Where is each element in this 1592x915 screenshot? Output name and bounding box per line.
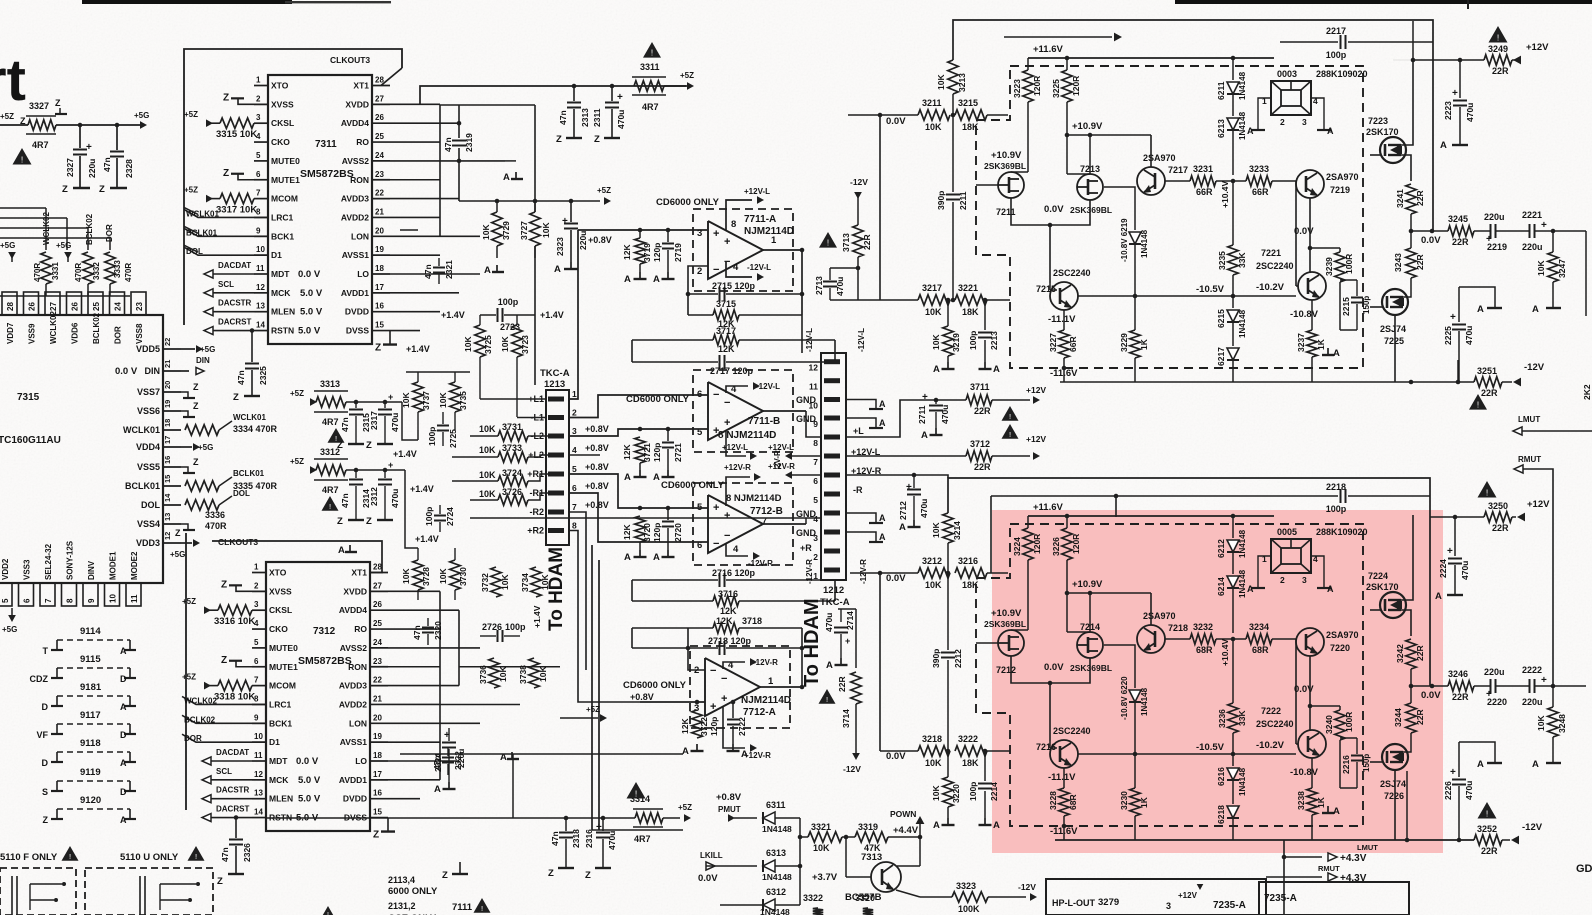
- resistor 3333 470R: [105, 252, 115, 284]
- svg-text:SM5872BS: SM5872BS: [300, 168, 354, 180]
- svg-text:6000 ONLY: 6000 ONLY: [388, 886, 438, 897]
- svg-text:AVDD1: AVDD1: [341, 288, 369, 298]
- svg-text:+: +: [724, 236, 730, 248]
- wire: [880, 299, 918, 301]
- svg-text:470u: 470u: [1465, 103, 1475, 122]
- svg-text:A: A: [624, 274, 631, 285]
- svg-text:MCK: MCK: [269, 775, 289, 785]
- diode 6311 1N4148: [763, 812, 775, 824]
- svg-text:2: 2: [572, 408, 577, 418]
- svg-text:VDD5: VDD5: [136, 344, 160, 354]
- wire collector q4 down: [1325, 248, 1327, 298]
- pin 28 XT1: [370, 572, 388, 574]
- svg-text:10K: 10K: [481, 224, 491, 240]
- svg-text:2326: 2326: [242, 843, 252, 862]
- svg-text:2319: 2319: [464, 133, 474, 152]
- svg-text:!: !: [1009, 430, 1011, 439]
- svg-text:22R: 22R: [1481, 846, 1498, 856]
- svg-text:3228: 3228: [1048, 791, 1058, 810]
- pin 13 MLEN: [252, 798, 266, 800]
- svg-text:A: A: [1327, 584, 1334, 594]
- svg-text:3242: 3242: [1395, 644, 1405, 663]
- svg-text:A: A: [879, 418, 886, 428]
- wire output 7712-A: [760, 686, 802, 688]
- svg-text:100p: 100p: [968, 331, 978, 350]
- wire vertical 880: [879, 115, 881, 300]
- pin 22 AVDD3: [370, 685, 388, 687]
- resistor 3240 100R: [1339, 706, 1341, 710]
- pin 5 MUTE0: [252, 647, 266, 649]
- svg-text:BCLK01: BCLK01: [125, 481, 160, 491]
- capacitor 2215 150p: [1340, 279, 1357, 281]
- svg-text:21: 21: [163, 360, 172, 368]
- wire row +L2: [569, 454, 600, 456]
- net -12V arrow 3714: [852, 753, 860, 760]
- svg-text:2: 2: [1280, 575, 1285, 585]
- pin 23 RON: [372, 179, 390, 181]
- capacitor 2322 47n: [447, 748, 449, 756]
- svg-text:1N4148: 1N4148: [1140, 687, 1149, 716]
- svg-text:A: A: [682, 746, 689, 757]
- svg-text:2219: 2219: [1487, 242, 1507, 252]
- pin 4 CKO: [252, 628, 266, 630]
- svg-text:−: −: [713, 389, 719, 401]
- ground A: [515, 172, 517, 179]
- warning triangle 3712: [1002, 424, 1019, 439]
- svg-text:RO: RO: [356, 137, 369, 147]
- svg-text:3730: 3730: [458, 567, 468, 586]
- ground Z pin20: [181, 392, 188, 398]
- wire +12V rail bottom: [1430, 516, 1484, 518]
- transistor 7223 2SK170: [1380, 137, 1406, 163]
- pin 25 RO: [372, 141, 390, 143]
- resistor 3738 10K: [529, 658, 539, 688]
- svg-text:2718 120p: 2718 120p: [708, 636, 752, 646]
- net DOL: [184, 247, 268, 255]
- wire -12V-L supply: [726, 262, 752, 277]
- svg-text:A: A: [1435, 591, 1442, 602]
- svg-text:5.0 V: 5.0 V: [300, 307, 323, 318]
- svg-text:+5G: +5G: [0, 241, 15, 250]
- svg-text:3221: 3221: [958, 283, 978, 293]
- svg-text:13: 13: [163, 513, 172, 521]
- svg-text:-12V-R: -12V-R: [805, 559, 814, 584]
- resistor 3728 10K: [413, 560, 423, 590]
- svg-text:+10.9V: +10.9V: [1072, 579, 1103, 590]
- svg-text:20: 20: [163, 381, 172, 389]
- svg-text:+1.4V: +1.4V: [540, 310, 564, 320]
- capacitor 2326 47n: [234, 815, 239, 820]
- svg-text:!: !: [481, 904, 483, 913]
- svg-text:+12V: +12V: [1178, 891, 1198, 900]
- svg-text:-10.8V: -10.8V: [1290, 767, 1319, 778]
- svg-text:3332: 3332: [92, 262, 101, 280]
- svg-text:VSS5: VSS5: [137, 462, 160, 472]
- resistor 3214 10K: [943, 513, 953, 543]
- svg-text:7215: 7215: [1036, 284, 1056, 294]
- svg-text:47n: 47n: [220, 847, 230, 862]
- svg-text:3331: 3331: [51, 262, 60, 280]
- wire source join: [1011, 656, 1090, 683]
- svg-text:7711-B: 7711-B: [748, 416, 780, 427]
- svg-text:BCLK02: BCLK02: [92, 312, 101, 344]
- svg-text:3243: 3243: [1393, 253, 1403, 272]
- svg-text:+: +: [1541, 675, 1547, 686]
- warning triangle: [1469, 394, 1487, 410]
- ground Z pin16: [181, 467, 188, 473]
- svg-text:WCLK01: WCLK01: [123, 425, 160, 435]
- outer boundary box around 7311: [184, 49, 402, 325]
- resistor 3238 1K: [1311, 758, 1313, 788]
- svg-text:+1.4V: +1.4V: [441, 310, 465, 320]
- svg-text:MUTE0: MUTE0: [269, 643, 298, 653]
- resistor 3223 120R: [1027, 58, 1029, 70]
- svg-text:6: 6: [256, 170, 261, 179]
- svg-text:A: A: [826, 660, 833, 671]
- svg-text:1: 1: [572, 389, 577, 399]
- svg-text:9: 9: [256, 226, 261, 235]
- svg-text:2225: 2225: [1443, 326, 1453, 345]
- wire gate stub: [1370, 609, 1381, 611]
- svg-text:390p: 390p: [931, 649, 941, 668]
- svg-text:18: 18: [373, 751, 382, 760]
- svg-text:XVDD: XVDD: [343, 586, 367, 596]
- svg-text:GND: GND: [796, 395, 817, 405]
- capacitor 2711 470u: [934, 398, 939, 403]
- svg-text:3321: 3321: [811, 822, 831, 832]
- pin 7 MCOM: [252, 685, 266, 687]
- svg-text:3219: 3219: [951, 333, 961, 352]
- svg-text:3225: 3225: [1051, 79, 1061, 98]
- wire +12V-L supply: [726, 200, 752, 231]
- svg-text:AVSS2: AVSS2: [342, 156, 370, 166]
- svg-text:8: 8: [813, 438, 818, 448]
- svg-text:2: 2: [697, 266, 702, 277]
- svg-text:3720: 3720: [642, 523, 652, 542]
- svg-text:3713: 3713: [841, 233, 851, 252]
- svg-text:POWN: POWN: [890, 809, 916, 819]
- wire CLKOUT3 to XT1 7312: [212, 541, 382, 573]
- svg-text:22: 22: [163, 338, 172, 346]
- wire op-amp1 input row: [578, 229, 707, 231]
- svg-text:CLKOUT3: CLKOUT3: [330, 55, 370, 65]
- svg-text:SONY-12S: SONY-12S: [66, 540, 75, 580]
- capacitor 2225 470u: [1458, 287, 1460, 322]
- connector 1212 TKC-A: [821, 353, 846, 580]
- pin 12 connector 1212: [824, 359, 840, 364]
- pin 21 AVDD2: [372, 216, 390, 218]
- svg-text:3717: 3717: [716, 326, 736, 336]
- svg-text:26: 26: [28, 302, 37, 311]
- svg-text:10K: 10K: [498, 666, 508, 682]
- svg-text:6311: 6311: [766, 800, 786, 810]
- svg-text:+5G: +5G: [134, 111, 149, 120]
- svg-text:2726: 2726: [482, 622, 502, 632]
- svg-text:LRC1: LRC1: [269, 699, 291, 709]
- pin 8 LRC1: [254, 216, 268, 218]
- resistor 3239 100R: [1339, 248, 1341, 252]
- wire emitter down: [1063, 768, 1065, 788]
- wire: [631, 340, 633, 362]
- wire WCLK01 diagonal: [184, 207, 198, 214]
- svg-text:+: +: [1447, 546, 1453, 557]
- svg-text:2711: 2711: [917, 405, 927, 424]
- resistor 3211 10K: [918, 110, 950, 120]
- svg-text:4R7: 4R7: [642, 102, 659, 112]
- svg-text:NJM2114D: NJM2114D: [744, 226, 794, 237]
- svg-text:7: 7: [254, 676, 259, 685]
- pin 20 LON: [370, 722, 388, 724]
- svg-text:3315 10K: 3315 10K: [216, 129, 257, 140]
- svg-text:+5G: +5G: [198, 443, 213, 452]
- svg-text:AVSS1: AVSS1: [340, 737, 368, 747]
- svg-text:BCLK02: BCLK02: [184, 715, 216, 724]
- svg-text:Z: Z: [20, 116, 26, 126]
- svg-text:3229: 3229: [1119, 333, 1129, 352]
- svg-text:120R: 120R: [1071, 76, 1081, 96]
- svg-text:-10.5V: -10.5V: [1196, 742, 1225, 753]
- svg-text:3213: 3213: [957, 73, 967, 92]
- svg-text:+5G: +5G: [170, 550, 185, 559]
- svg-text:-12V: -12V: [1522, 822, 1543, 833]
- warning triangle: [1489, 26, 1508, 43]
- svg-text:6218: 6218: [1216, 805, 1226, 824]
- svg-text:22R: 22R: [1492, 66, 1509, 76]
- wire row +5Z y818: [265, 817, 635, 819]
- svg-text:3319: 3319: [858, 822, 878, 832]
- transistor 7211 2SK369BL: [998, 172, 1024, 198]
- svg-text:A: A: [120, 702, 127, 712]
- svg-text:0.0 V: 0.0 V: [115, 366, 138, 377]
- IC 7315 TC160G11AU: [0, 315, 163, 583]
- wire right edge: [1585, 231, 1587, 316]
- svg-text:+5Z: +5Z: [184, 110, 198, 119]
- resistor 3334 470R WCLK01: [185, 425, 219, 435]
- svg-text:13: 13: [256, 302, 265, 311]
- svg-text:47n: 47n: [340, 493, 350, 508]
- svg-text:3232: 3232: [1193, 622, 1213, 632]
- svg-text:12: 12: [163, 532, 172, 540]
- svg-text:100p: 100p: [498, 297, 519, 307]
- svg-text:3316 10K: 3316 10K: [214, 616, 255, 627]
- capacitor 2328 47n: [115, 123, 120, 128]
- capacitor 2217 100p: [1280, 41, 1338, 43]
- wire: [1295, 181, 1297, 286]
- svg-text:SCL: SCL: [216, 767, 232, 776]
- capacitor 2315 47n: [355, 402, 357, 408]
- transistor 7217 2SA970: [1137, 167, 1165, 195]
- svg-text:2317: 2317: [369, 411, 379, 430]
- svg-text:2: 2: [813, 552, 818, 562]
- svg-text:100p: 100p: [505, 622, 526, 632]
- svg-text:1K: 1K: [1316, 338, 1326, 350]
- diode 6215 1N4148: [1232, 296, 1234, 308]
- net BCLK02: [182, 715, 266, 723]
- svg-text:3726: 3726: [502, 487, 522, 497]
- svg-text:DACSTR: DACSTR: [218, 299, 252, 308]
- wire: [846, 400, 936, 437]
- pin 28 VDD7: [2, 292, 17, 315]
- wire 2SJ74 source down: [1394, 316, 1396, 382]
- ground Z DVSS: [389, 331, 391, 345]
- svg-text:+: +: [721, 693, 727, 705]
- svg-text:6: 6: [572, 483, 577, 493]
- svg-text:25: 25: [92, 302, 101, 311]
- svg-text:Z: Z: [548, 868, 554, 879]
- svg-text:-12V: -12V: [1524, 362, 1545, 373]
- svg-text:Z: Z: [233, 392, 239, 403]
- pin 15 DVSS: [370, 817, 388, 819]
- svg-text:2714: 2714: [845, 611, 855, 630]
- svg-text:470u: 470u: [1464, 781, 1474, 800]
- svg-text:2224: 2224: [1438, 559, 1448, 578]
- svg-text:2721: 2721: [673, 443, 683, 462]
- svg-text:2213: 2213: [989, 331, 999, 350]
- svg-text:2113,4: 2113,4: [388, 875, 415, 885]
- svg-text:1N4148: 1N4148: [1238, 529, 1247, 558]
- svg-text:66R: 66R: [1252, 187, 1269, 197]
- pin 8 connector 1212: [824, 435, 840, 440]
- svg-text:A: A: [120, 646, 127, 656]
- svg-text:120p: 120p: [709, 717, 719, 736]
- capacitor 2211 390p: [952, 115, 954, 192]
- svg-text:Z: Z: [337, 516, 343, 527]
- resistor 3316 10K: [206, 609, 218, 611]
- pin 1 connector 1212: [824, 568, 840, 573]
- transistor 7215 2SC2240: [1050, 282, 1078, 310]
- wire: [631, 580, 633, 601]
- net +5G arrow pin17: [181, 446, 192, 448]
- wire ladder 7311 right pins: [390, 103, 440, 105]
- svg-text:16: 16: [375, 302, 384, 311]
- svg-text:WCLK02: WCLK02: [49, 311, 58, 344]
- svg-text:2SA970: 2SA970: [1143, 611, 1176, 621]
- resistor 3213 10K: [948, 60, 958, 94]
- capacitor 2224 470u: [1454, 517, 1456, 556]
- capacitor 2212 390p: [947, 573, 949, 650]
- svg-text:2717 120p: 2717 120p: [710, 366, 754, 376]
- svg-text:+5Z: +5Z: [678, 803, 692, 812]
- svg-text:2SK369BL: 2SK369BL: [984, 619, 1026, 629]
- capacitor 2316 470u: [602, 818, 604, 831]
- wire -12V-R supply: [723, 662, 745, 669]
- svg-text:2715 120p: 2715 120p: [712, 281, 756, 291]
- svg-text:RO: RO: [354, 624, 367, 634]
- svg-text:16: 16: [373, 789, 382, 798]
- svg-text:2722: 2722: [737, 717, 747, 736]
- svg-text:22R: 22R: [1415, 645, 1425, 661]
- svg-text:3252: 3252: [1477, 824, 1497, 834]
- capacitor 2313 47n: [572, 84, 577, 89]
- wire trunk x563: [569, 230, 578, 399]
- svg-text:+12V-R: +12V-R: [744, 751, 771, 760]
- svg-text:3247: 3247: [1557, 259, 1567, 278]
- svg-text:+0.8V: +0.8V: [585, 443, 609, 453]
- svg-text:10K: 10K: [438, 568, 448, 584]
- pin 7 connector 1212: [824, 454, 840, 459]
- pin 13 MLEN: [254, 311, 268, 313]
- svg-text:10K: 10K: [925, 307, 942, 317]
- svg-text:DOL: DOL: [141, 500, 161, 510]
- svg-text:7: 7: [813, 457, 818, 467]
- svg-text:2316: 2316: [584, 829, 594, 848]
- svg-text:−: −: [721, 673, 727, 685]
- svg-text:+: +: [922, 392, 928, 403]
- highlight region (right channel output stage): [992, 510, 1443, 853]
- svg-text:DIN: DIN: [196, 356, 210, 365]
- svg-text:2226: 2226: [1443, 781, 1453, 800]
- svg-text:A: A: [624, 472, 631, 483]
- capacitor 2311 470u: [610, 84, 615, 89]
- pin 19 AVSS1: [370, 741, 388, 743]
- svg-text:MODE2: MODE2: [130, 551, 139, 580]
- svg-text:!: !: [635, 788, 637, 798]
- svg-text:3212: 3212: [922, 556, 942, 566]
- capacitor 2712 470u: [913, 475, 915, 488]
- svg-text:470u: 470u: [1464, 326, 1474, 345]
- svg-text:!: !: [21, 154, 23, 164]
- svg-text:10K: 10K: [438, 392, 448, 408]
- svg-text:5: 5: [813, 495, 818, 505]
- svg-text:10K: 10K: [936, 74, 946, 90]
- svg-text:!: !: [69, 852, 71, 861]
- svg-text:7218: 7218: [1168, 623, 1188, 633]
- net +5Z arrow: [600, 714, 607, 722]
- resistor 3235 33K: [1232, 196, 1234, 245]
- svg-text:10K: 10K: [541, 222, 551, 238]
- svg-text:0005: 0005: [1277, 527, 1297, 537]
- svg-text:Z: Z: [62, 184, 68, 195]
- component 0005 288K109020: [1271, 539, 1311, 573]
- svg-text:2SK369BL: 2SK369BL: [984, 161, 1026, 171]
- svg-text:3727: 3727: [519, 221, 529, 240]
- svg-text:Z: Z: [585, 870, 591, 881]
- svg-text:3733: 3733: [502, 443, 522, 453]
- diode 6212 1N4148: [1232, 516, 1234, 538]
- resistor 3219 10K: [943, 326, 953, 356]
- svg-text:2220: 2220: [1487, 697, 1507, 707]
- svg-text:VDD4: VDD4: [136, 442, 160, 452]
- wire bus from left edge: [0, 207, 46, 209]
- wire: [880, 750, 918, 752]
- svg-text:7226: 7226: [1384, 791, 1404, 801]
- svg-text:A: A: [1477, 759, 1484, 770]
- svg-text:A: A: [1247, 126, 1254, 136]
- ground A pin10: [846, 400, 876, 404]
- svg-text:+1.4V: +1.4V: [406, 344, 430, 354]
- svg-text:2SA970: 2SA970: [1326, 630, 1359, 640]
- svg-text:11: 11: [130, 594, 139, 603]
- svg-text:390p: 390p: [936, 191, 946, 210]
- svg-text:5110 F ONLY: 5110 F ONLY: [0, 852, 58, 863]
- svg-text:100p: 100p: [1326, 504, 1347, 514]
- svg-text:100p: 100p: [1326, 50, 1347, 60]
- resistor 3249 22R: [1484, 55, 1512, 65]
- svg-text:10K: 10K: [500, 574, 510, 590]
- svg-text:+L: +L: [853, 426, 864, 436]
- IC 7312 SM5872BS: [266, 562, 370, 831]
- capacitor 2716 120p: [632, 579, 718, 581]
- svg-text:3721: 3721: [642, 443, 652, 462]
- svg-text:22R: 22R: [1415, 709, 1425, 725]
- dashed boundary left channel: [976, 66, 1363, 368]
- svg-text:27: 27: [373, 581, 382, 590]
- svg-text:MDT: MDT: [271, 269, 290, 279]
- resistor 3335 470R BCLK01: [185, 481, 219, 491]
- capacitor 2219 220u: [1474, 230, 1490, 232]
- svg-text:AVDD2: AVDD2: [341, 212, 369, 222]
- pin 16 VSS5: [163, 466, 181, 468]
